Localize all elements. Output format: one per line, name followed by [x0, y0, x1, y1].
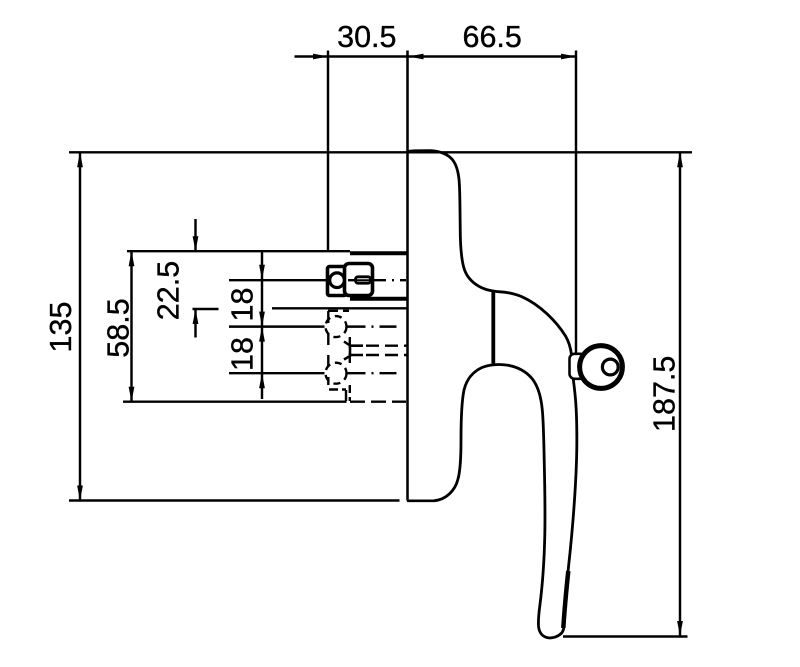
right dimension 187.5 line [679, 152, 681, 636]
spindle slot [356, 277, 371, 283]
arrow down at (131.5,401.7) [129, 387, 135, 402]
clip fork solid [344, 342, 363, 360]
key cylinder inner circle [602, 359, 618, 375]
bottom mechanism line y=401.7 [123, 400, 347, 402]
extension line x=328 [327, 51, 329, 252]
top dimension line [295, 55, 577, 57]
top extension line y=152.3 [69, 151, 692, 153]
plate left edge x=407.5 [406, 51, 409, 501]
dimension 18/18 line x=262 [261, 251, 263, 399]
left dimension 135 line [79, 152, 81, 500]
arrow up at (680,152.3) [677, 152, 683, 167]
svg-text:58.5: 58.5 [102, 298, 136, 357]
mechanism line y=251.2 [127, 250, 350, 252]
hole centerline y=326.6 [229, 325, 325, 327]
arrow down at (262,326.6) [259, 312, 265, 327]
svg-text:22.5: 22.5 [152, 261, 186, 320]
hidden dashes y=355 [366, 354, 407, 356]
key cylinder outer circle [580, 346, 623, 389]
hidden dashes y=345.7 [366, 345, 407, 347]
svg-text:18: 18 [226, 288, 260, 322]
hidden gearbox dashed left edge x=328.3 [327, 311, 329, 385]
hidden hole circle lower [326, 363, 347, 384]
spindle centerline y=280.2 [229, 279, 348, 281]
bottom extension line y=636.5 [563, 635, 688, 637]
svg-text:30.5: 30.5 [337, 20, 396, 54]
gearcase top thick y=253.2 [350, 251, 407, 255]
lever right edge thick segment [563, 571, 568, 628]
key boss [570, 354, 586, 379]
dashed continuation y=401.7 [350, 400, 406, 402]
hidden step [329, 390, 346, 402]
arrow up at (262,373.2) [259, 373, 265, 388]
spindle block right square [345, 264, 373, 296]
hidden hole circle upper [326, 316, 347, 337]
arrow up at (195.5,309) [193, 309, 199, 324]
hole centerline y=373.2 [229, 372, 325, 374]
bottom extension line y=500.5 [69, 499, 400, 501]
svg-text:18: 18 [226, 337, 260, 371]
hidden right edge segments x=349.8 [349, 337, 351, 401]
spindle block left square [328, 267, 347, 296]
centerline over slot [352, 279, 374, 281]
arrow down at (680,636) [677, 621, 683, 636]
svg-text:187.5: 187.5 [648, 356, 682, 432]
short extension y=309 [193, 308, 219, 310]
dimension 58.5 line x=131.5 [130, 251, 132, 402]
arrow tip left at x=408.5 [409, 54, 424, 60]
arrow up at (80,152.3) [77, 152, 83, 167]
arrow down at (195.5,251.2) [193, 236, 199, 251]
arrow tip right at x=576 [561, 54, 576, 60]
svg-text:135: 135 [44, 302, 78, 353]
svg-text:66.5: 66.5 [463, 20, 522, 54]
extension line x=576 [575, 51, 577, 354]
handle upper silhouette [407, 151, 572, 355]
arrow down at (262,279.7) [259, 265, 265, 280]
dimension 22.5 leaders x=195.5 [194, 219, 196, 251]
arrow down at (80,500.5) [77, 486, 83, 501]
plate bottom edge [407, 500, 434, 503]
spindle circle [330, 273, 345, 288]
centerline through block [348, 279, 374, 281]
arrow up at (131.5,251.2) [129, 251, 135, 266]
hidden top dash y=310.8 [328, 310, 349, 312]
arrow up at (262,326.6) [259, 327, 265, 342]
centerline dash-dot right y=280.2 [374, 279, 406, 281]
gap boundary and lever outline [434, 365, 577, 638]
line y=308.3 [272, 307, 407, 309]
arrow tip right at x=328 [313, 54, 328, 60]
neck vertical edge [491, 292, 495, 364]
gearcase bottom thick y=298.7 [350, 297, 407, 301]
